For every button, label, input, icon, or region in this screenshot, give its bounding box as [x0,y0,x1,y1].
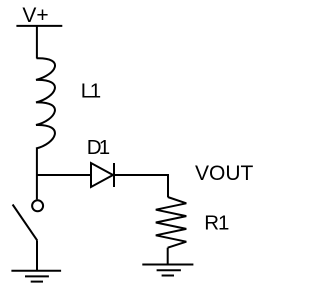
ground (switch side) [11,271,61,282]
wire resistor to ground [167,248,169,265]
svg-text:1: 1 [90,80,101,103]
svg-text:1: 1 [99,136,110,159]
switch contact circle [32,200,43,211]
svg-text:R: R [204,212,219,235]
ground (output side) [142,265,193,276]
diode D1 [91,163,114,187]
svg-text:VOUT: VOUT [195,162,254,185]
R1 label [204,212,229,235]
svg-text:1: 1 [218,212,229,235]
D1 label [87,136,110,159]
wire inductor to switch node [36,149,38,200]
wire diode to output corner [114,175,168,197]
resistor R1 [156,197,187,248]
wire rail to inductor [36,26,38,59]
power rail V+ [16,25,62,27]
wire node to diode anode [37,174,91,176]
switch blade [13,205,38,241]
wire switch to ground [36,240,38,270]
svg-text:V+: V+ [22,4,48,27]
L1 value label [81,80,102,103]
inductor L1 [36,58,55,148]
